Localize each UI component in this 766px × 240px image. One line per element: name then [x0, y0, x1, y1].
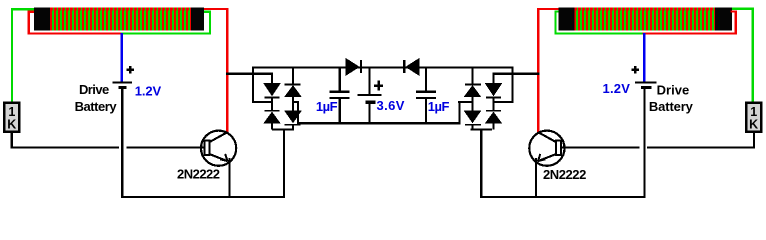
svg-text:K: K	[749, 118, 758, 132]
diode D3 (DB1 upper-right, pointing up)	[292, 67, 294, 83]
diode D8 (DB2 upper-right, pointing down)	[492, 74, 494, 84]
transistor Q1 collector stroke	[210, 132, 228, 142]
transistor Q1 base bar	[205, 141, 210, 155]
wire right emitter ground rail	[480, 196, 646, 198]
battery B3 plus sign	[377, 80, 380, 90]
capacitor C2 top lead	[425, 67, 427, 90]
wire T2 green bottom lead to center tap	[554, 32, 644, 34]
wire B1 negative lead down to rail	[121, 89, 123, 198]
wire DB1 mid-node tap to bottom bus	[293, 101, 299, 103]
wire T1 green lead down left side to R1	[11, 8, 13, 101]
wire T2 red bottom lead to center tap	[643, 32, 737, 34]
transformer T2 core right block	[715, 7, 732, 30]
transformer T2 core left block	[559, 7, 575, 30]
wire DB2 output bottom bar	[470, 128, 492, 130]
transistor Q2 collector stroke	[538, 132, 556, 142]
battery B2 plus sign	[634, 66, 637, 73]
svg-text:Drive: Drive	[657, 83, 690, 98]
diode D6 (DB2 upper-left, pointing up)	[471, 67, 473, 83]
wire T1 red top-right lead	[204, 8, 229, 10]
wire R2 bottom lead	[753, 132, 755, 149]
battery B1 short negative plate	[119, 86, 127, 89]
resistor R1 1K body	[4, 103, 19, 132]
wire B2 negative lead down to rail	[644, 89, 646, 198]
wire DB1 output bottom bar	[272, 128, 294, 130]
transformer T1 bifilar winding stripes	[50, 8, 191, 31]
svg-text:1µF: 1µF	[316, 99, 338, 114]
svg-text:K: K	[7, 118, 16, 132]
wire collector node to bridge DB2 input	[493, 73, 540, 75]
wire right rail riser to bridge DB2	[480, 130, 482, 198]
wire left rail riser to bridge DB1	[283, 130, 285, 198]
wire left emitter ground rail	[121, 196, 285, 198]
wire base of Q2 from R2, crossover gap at battery lead	[561, 146, 640, 148]
transistor Q1 emitter stroke with arrow	[210, 154, 228, 161]
wire T2 green left vertical	[554, 10, 556, 34]
wire bus corner down to DB2 right-column mid node	[512, 66, 514, 103]
capacitor C1 plates	[329, 91, 349, 93]
battery B3 long positive plate	[358, 94, 382, 96]
resistor R2 1K body	[746, 103, 761, 132]
diode D10 charging diode right (anode right)	[405, 58, 419, 76]
wire T1 green top-right lead	[204, 11, 211, 13]
wire T2 red right vertical	[735, 10, 738, 33]
capacitor C1 bottom lead	[339, 99, 341, 123]
diode D4 (DB1 lower-right, pointing down)	[284, 111, 302, 124]
battery B1 plus sign	[129, 66, 132, 73]
wire DB2 mid-node tap to bottom bus	[458, 101, 473, 103]
wire T2 green top-right lead	[732, 8, 754, 10]
transistor Q2 base bar	[556, 141, 561, 155]
wire T2 red top-left lead	[537, 8, 562, 10]
diode D2 (DB1 lower-left, pointing up)	[265, 110, 280, 112]
transistor Q1 2N2222 body circle	[201, 131, 236, 166]
transistor Q2 emitter stroke with arrow	[538, 154, 556, 161]
capacitor C1 top lead	[339, 67, 341, 90]
wire T1 green right vertical	[209, 11, 211, 35]
svg-text:Battery: Battery	[649, 99, 694, 114]
transformer T1 core right block	[191, 7, 204, 30]
diode D7 (DB2 lower-right, pointing up)	[486, 110, 501, 112]
wire T2 red top-right stub	[730, 10, 737, 12]
svg-text:1µF: 1µF	[428, 99, 450, 114]
svg-text:Drive: Drive	[79, 82, 109, 97]
transistor Q2 2N2222 body circle	[529, 131, 564, 166]
transformer T1 core left block	[34, 7, 50, 30]
battery B3 top lead	[368, 67, 370, 94]
battery B3 short negative plate	[365, 101, 375, 104]
wire B3 negative lead down to bottom bus	[368, 104, 370, 123]
wire T1 red left vertical	[27, 11, 30, 34]
wire T1 red bottom lead to center tap	[27, 32, 123, 34]
transformer T2 bifilar winding stripes	[575, 8, 715, 31]
battery B2 short negative plate	[641, 86, 651, 89]
wire T1 red primary top-left stub	[27, 11, 35, 13]
node center tap blue wire to battery B1 positive	[121, 33, 124, 82]
wire T1 green bottom lead to center tap	[121, 32, 211, 34]
svg-text:1.2V: 1.2V	[603, 81, 631, 96]
wire T1 green secondary top lead	[11, 8, 34, 10]
wire collector node to bridge DB1 input	[226, 73, 273, 75]
wire Q2 emitter lead down to rail	[535, 158, 537, 198]
wire red collector lead down to Q2	[537, 8, 540, 132]
diode D9 charging diode left (anode left)	[346, 58, 360, 76]
wire R1 bottom lead	[11, 132, 13, 149]
wire T2 green top-left lead	[554, 10, 561, 12]
diode D5 (DB2 lower-left, pointing down)	[464, 111, 482, 124]
wire Q1 emitter lead down to rail	[229, 158, 231, 198]
wire red collector lead down to Q1	[226, 8, 229, 132]
svg-text:2N2222: 2N2222	[543, 167, 586, 182]
wire T2 green lead down right side to R2	[752, 8, 754, 102]
battery B1 long positive plate	[112, 82, 132, 84]
svg-text:1.2V: 1.2V	[135, 84, 162, 99]
wire DC bottom bus	[297, 122, 460, 124]
capacitor C2 plates	[416, 91, 436, 93]
wire DC top bus	[252, 66, 514, 68]
svg-text:2N2222: 2N2222	[177, 167, 220, 182]
battery B2 long positive plate	[635, 82, 656, 84]
wire base of Q1 from R1, crossover gap at battery lead	[11, 146, 119, 148]
node center tap blue wire to battery B2 positive	[643, 33, 646, 82]
diode D1 (DB1 upper-left, pointing down)	[271, 74, 273, 84]
svg-text:Battery: Battery	[75, 99, 118, 114]
svg-text:3.6V: 3.6V	[377, 98, 405, 113]
wire bus corner down to DB1 left-column mid node	[252, 66, 254, 103]
capacitor C2 bottom lead	[425, 99, 427, 123]
